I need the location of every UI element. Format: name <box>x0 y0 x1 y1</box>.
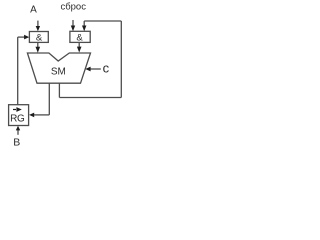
wire A arrow line <box>37 21 39 28</box>
wire B arrow line <box>17 130 19 135</box>
wire left AND output line <box>37 42 39 47</box>
AND gate box left <box>29 32 48 43</box>
arrowhead feedback into left AND left side <box>24 35 29 40</box>
wire loop bottom horizontal <box>59 97 121 99</box>
circuit schematic: accumulator with adder SM, register RG, AND gates <box>0 0 125 149</box>
svg-text:A: A <box>30 5 37 16</box>
wire loop top vertical into right AND <box>83 21 85 28</box>
wire feedback RG to left AND vertical <box>17 37 19 105</box>
svg-text:B: B <box>13 137 20 149</box>
wire SM output drop <box>48 83 50 115</box>
svg-text:RG: RG <box>10 114 25 125</box>
shift arrow inside RG: head <box>16 107 21 112</box>
arrowhead loop into right AND <box>82 26 86 32</box>
arrowhead left AND output into SM <box>36 47 41 53</box>
adder SM body <box>27 53 90 83</box>
shift arrow inside RG: dash <box>13 109 16 110</box>
svg-text:c: c <box>103 61 110 76</box>
AND gate box right <box>70 31 90 42</box>
wire loop riser to SM bottom <box>58 83 60 98</box>
wire feedback horizontal into left AND <box>18 36 25 38</box>
arrowhead right AND output into SM <box>77 47 82 53</box>
svg-text:&: & <box>76 32 83 43</box>
wire loop top horizontal <box>84 20 121 22</box>
svg-text:SM: SM <box>51 67 66 78</box>
arrowhead into RG right side <box>29 113 34 118</box>
wire loop right vertical <box>120 21 122 98</box>
arrowhead A into left AND <box>36 26 40 31</box>
arrowhead B into RG bottom <box>16 126 20 131</box>
register RG box <box>9 105 29 126</box>
wire right AND output line <box>78 42 80 47</box>
svg-text:&: & <box>36 32 43 43</box>
arrowhead c into SM right side <box>85 67 90 72</box>
wire сброс arrow line <box>72 20 74 28</box>
wire SM output horizontal into RG <box>34 114 50 116</box>
wire c arrow line <box>90 68 101 70</box>
arrowhead сброс into right AND <box>71 26 75 32</box>
svg-text:сброс: сброс <box>60 2 86 13</box>
